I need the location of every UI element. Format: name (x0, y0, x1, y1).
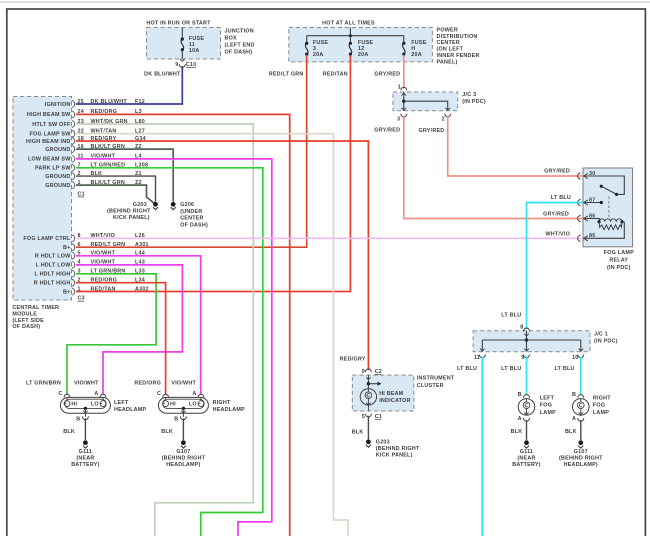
wire L80 WHT/DK GRN (CTM pin 23, off-page bottom) (76, 124, 254, 536)
svg-text:LT BLU: LT BLU (555, 366, 575, 372)
svg-text:RED/TAN: RED/TAN (323, 72, 348, 78)
wire F12 DK BLU/WHT (fuse 11 to CTM pin 25) (76, 66, 183, 104)
svg-text:OF DASH): OF DASH) (225, 49, 253, 55)
svg-text:(IN PDC): (IN PDC) (462, 99, 486, 105)
svg-text:MODULE: MODULE (12, 311, 37, 317)
fog lamp relay box (583, 168, 634, 271)
svg-text:CENTER: CENTER (437, 40, 460, 46)
svg-text:PARK LP SW: PARK LP SW (35, 166, 71, 172)
connector C10 pin 9 (175, 59, 196, 68)
svg-text:(NEAR: (NEAR (76, 456, 94, 462)
wire LT BLU (relay pin 87 to J/C 1 pin 8) (501, 195, 583, 329)
wire Z2 BLK/LT GRN (CTM pin 1 to ground G203) (76, 185, 154, 203)
J/C 1 pin 11 connector (474, 355, 485, 361)
svg-text:1: 1 (78, 286, 81, 292)
svg-text:HEADLAMP: HEADLAMP (213, 407, 245, 413)
relay pin 85 terminal (578, 222, 625, 242)
svg-text:C: C (157, 391, 161, 397)
svg-text:J/C 1: J/C 1 (594, 332, 608, 338)
svg-text:CLUSTER: CLUSTER (417, 383, 444, 389)
J/C 1 pin 10 connector (572, 355, 584, 361)
CTM pin 5 R HDLT LOW (C3) (35, 251, 145, 260)
wire BLK (left fog lamp to ground G111) (511, 420, 527, 440)
svg-text:KICK PANEL): KICK PANEL) (113, 215, 150, 221)
svg-text:B: B (76, 417, 80, 423)
svg-text:RED/LT GRN: RED/LT GRN (269, 72, 304, 78)
svg-text:LT BLU: LT BLU (501, 366, 521, 372)
svg-text:VIO/WHT: VIO/WHT (171, 381, 196, 387)
wire L3 RED/ORG (CTM pin 24, off-page bottom) (76, 114, 290, 536)
svg-text:BOX: BOX (225, 36, 238, 42)
svg-text:(BEHIND RIGHT: (BEHIND RIGHT (162, 456, 206, 462)
wire Z2 BLK/LT GRN (CTM pin 16 to ground G206) (76, 149, 173, 201)
svg-text:J/C 3: J/C 3 (462, 92, 476, 98)
svg-text:C2: C2 (375, 369, 382, 375)
wire BLK (right headlamp to ground G107) (161, 418, 183, 440)
J/C 3 internal bus (402, 92, 451, 111)
svg-text:HEADLAMP: HEADLAMP (114, 407, 146, 413)
hi beam indicator bulb (360, 375, 410, 411)
relay pin 30 terminal (0, 0, 624, 194)
svg-text:BLK: BLK (161, 429, 173, 435)
CTM pin 2 R HDLT HIGH (C3) (34, 278, 145, 287)
svg-text:GRY/RED: GRY/RED (544, 169, 570, 175)
svg-text:FOG: FOG (593, 403, 605, 409)
svg-text:HEADLAMP): HEADLAMP) (564, 462, 598, 468)
ground G203 (behind right kick panel, cluster) (366, 439, 420, 458)
svg-text:HOT AT ALL TIMES: HOT AT ALL TIMES (322, 20, 375, 26)
svg-text:INSTRUMENT: INSTRUMENT (417, 376, 455, 382)
svg-text:B: B (572, 392, 576, 398)
CTM pin 2 GROUND (45, 171, 142, 180)
svg-text:WHT/VIO: WHT/VIO (545, 231, 570, 237)
fuse 3 20A (305, 36, 328, 62)
svg-text:L HDLT LOW: L HDLT LOW (36, 263, 72, 269)
svg-text:DK BLU/WHT: DK BLU/WHT (144, 72, 181, 78)
svg-text:HI: HI (71, 402, 77, 408)
svg-text:(UNDER: (UNDER (180, 209, 202, 215)
svg-text:BLK: BLK (565, 429, 577, 435)
svg-text:C1: C1 (78, 191, 85, 197)
svg-text:G111: G111 (520, 449, 533, 455)
svg-text:RED/GRY: RED/GRY (340, 357, 366, 363)
svg-text:IGNITION: IGNITION (45, 102, 71, 108)
CTM pin 1 GROUND (45, 180, 142, 189)
wire L4 VIO/WHT (CTM pin 11, off-page bottom) (76, 159, 272, 536)
svg-text:B: B (174, 417, 178, 423)
svg-text:R HDLT LOW: R HDLT LOW (35, 254, 71, 260)
svg-text:11: 11 (474, 355, 480, 361)
svg-text:HIGH BEAM IND: HIGH BEAM IND (26, 139, 71, 145)
wire LT BLU (J/C 1 pin 11, off-page bottom) (457, 357, 482, 536)
wire L34 RED/ORG (CTM pin 2 to right headlamp C) (76, 283, 166, 395)
J/C 3 pin 3 connector (397, 114, 407, 123)
svg-text:5: 5 (362, 414, 365, 420)
svg-text:9: 9 (362, 369, 365, 375)
J/C 1 internal bus (480, 331, 583, 352)
central timer module box (12, 97, 71, 331)
svg-text:INDICATOR: INDICATOR (379, 398, 410, 404)
svg-text:HOT IN RUN OR START: HOT IN RUN OR START (146, 20, 211, 26)
svg-text:FOG: FOG (540, 403, 552, 409)
svg-text:9: 9 (521, 355, 524, 361)
svg-text:BLK: BLK (63, 429, 75, 435)
svg-text:LO: LO (91, 402, 99, 408)
svg-text:10A: 10A (189, 48, 200, 54)
wire L44 VIO/WHT (CTM pin 5 to right headlamp A) (76, 256, 201, 395)
svg-text:F12: F12 (135, 99, 145, 105)
right fog lamp (572, 392, 611, 422)
svg-text:G107: G107 (176, 449, 190, 455)
CTM pin 22 FOG LAMP SW (30, 129, 145, 138)
svg-text:G206: G206 (180, 202, 194, 208)
CTM pin 23 HTLT SW OFF (32, 119, 145, 128)
ground G111 (near battery, fog lamp) (512, 440, 540, 468)
wire A302 RED/TAN (fuse 12 to CTM pin 1 B+) (76, 55, 351, 291)
svg-text:LEFT: LEFT (540, 396, 555, 402)
CTM pin 24 HIGH BEAM SW (27, 109, 142, 118)
svg-text:G111: G111 (79, 449, 92, 455)
fuse H 20A (402, 36, 427, 62)
CTM pin 16 GROUND (45, 144, 142, 153)
svg-text:DISTRIBUTION: DISTRIBUTION (437, 34, 478, 40)
svg-text:HIGH BEAM SW: HIGH BEAM SW (27, 112, 71, 118)
svg-text:GROUND: GROUND (45, 183, 70, 189)
svg-text:CENTER: CENTER (180, 216, 203, 222)
svg-text:C1: C1 (375, 414, 382, 420)
svg-text:A302: A302 (135, 286, 149, 292)
svg-text:KICK PANEL): KICK PANEL) (376, 453, 413, 459)
svg-text:A301: A301 (135, 242, 149, 248)
svg-text:FOG LAMP CTRL: FOG LAMP CTRL (23, 236, 71, 242)
junction connector J/C 1 (in PDC) box (473, 331, 618, 352)
J/C 1 pin 9 connector (521, 355, 529, 361)
J/C 3 pin 1 connector (398, 84, 407, 90)
wire A301 RED/LT GRN (fuse 3 to CTM pin 6 B+) (76, 55, 307, 247)
svg-text:FOG LAMP: FOG LAMP (604, 250, 634, 256)
svg-text:(LEFT SIDE: (LEFT SIDE (12, 318, 44, 324)
svg-text:G203: G203 (133, 202, 147, 208)
CTM pin 11 LOW BEAM SW (28, 154, 142, 163)
svg-text:(NEAR: (NEAR (517, 456, 535, 462)
svg-text:(IN PDC): (IN PDC) (594, 339, 618, 345)
CTM pin 6 B+ (C3) (63, 242, 149, 251)
wire L26 WHT/VIO (CTM pin 8 to relay pin 85) (76, 231, 583, 238)
CTM connector C1 label (78, 191, 85, 197)
fuse 11 10A (181, 28, 205, 60)
wire L27 WHT/TAN (CTM pin 22, off-page bottom) (76, 134, 348, 536)
svg-text:C10: C10 (186, 62, 197, 68)
svg-text:DK BLU/WHT: DK BLU/WHT (91, 99, 128, 105)
svg-text:20A: 20A (358, 52, 369, 58)
right headlamp (157, 391, 245, 422)
relay pin 87 terminal (578, 197, 603, 205)
svg-text:C: C (58, 391, 62, 397)
svg-text:RED/ORG: RED/ORG (134, 381, 161, 387)
svg-text:2: 2 (442, 117, 445, 123)
svg-text:8: 8 (520, 325, 523, 331)
fuse 12 20A (349, 36, 374, 62)
svg-text:25: 25 (78, 99, 84, 105)
svg-text:BATTERY): BATTERY) (512, 462, 540, 468)
wire BLK (right fog lamp to ground G107) (565, 420, 581, 440)
svg-text:A: A (572, 416, 576, 422)
left fog lamp (518, 392, 556, 422)
svg-text:HI BEAM: HI BEAM (379, 391, 404, 397)
relay coil with parallel resistor (86-85) (598, 219, 624, 230)
ground G107 (behind right headlamp, fog lamp) (559, 440, 603, 468)
J/C 3 pin 2 connector (442, 114, 451, 123)
svg-text:20A: 20A (411, 52, 422, 58)
svg-text:(BEHIND RIGHT: (BEHIND RIGHT (559, 456, 603, 462)
power distribution center box (289, 20, 480, 65)
left headlamp (58, 391, 146, 422)
svg-text:GRY/RED: GRY/RED (374, 72, 400, 78)
wire GRY/RED (J/C 3 pin 2 to relay pin 30) (418, 116, 583, 177)
relay pin 86 terminal (578, 213, 600, 221)
wire L33 LT GRN/BRN (CTM pin 3 to left headlamp C) (26, 274, 156, 395)
wire LT BLU (J/C 1 pin 9 to left fog lamp) (501, 357, 526, 396)
svg-text:(ON LEFT: (ON LEFT (437, 47, 464, 53)
svg-text:G107: G107 (574, 449, 588, 455)
svg-text:PANEL): PANEL) (437, 59, 458, 65)
junction connector J/C 3 (in PDC) box (393, 92, 486, 111)
relay switch contact (30-87) (600, 185, 618, 217)
svg-text:RED/LT GRN: RED/LT GRN (91, 242, 126, 248)
svg-text:LT BLU: LT BLU (457, 366, 477, 372)
svg-text:LT BLU: LT BLU (501, 312, 521, 318)
connector C2 pin 9 (instrument cluster) (362, 369, 382, 375)
svg-text:BLK: BLK (352, 429, 364, 435)
svg-text:LEFT: LEFT (114, 400, 129, 406)
connector C1 pin 5 (instrument cluster) (362, 414, 382, 420)
svg-text:C3: C3 (78, 296, 85, 302)
svg-text:LT GRN/BRN: LT GRN/BRN (26, 381, 61, 387)
svg-text:LT BLU: LT BLU (551, 195, 571, 201)
svg-text:HI: HI (170, 402, 176, 408)
svg-text:B+: B+ (63, 245, 70, 251)
junction box (left end of dash) (146, 20, 254, 59)
svg-text:OF DASH): OF DASH) (12, 324, 40, 330)
wire GRY/RED (fuse H to J/C 3 pin 1) (374, 55, 403, 88)
CTM connector C3 label (78, 296, 85, 302)
svg-text:BLK: BLK (511, 429, 523, 435)
svg-text:RIGHT: RIGHT (213, 400, 231, 406)
svg-text:GRY/RED: GRY/RED (543, 212, 569, 218)
wire G34 RED/GRY (CTM pin 18 to hi beam indicator) (76, 141, 369, 370)
svg-text:20A: 20A (313, 52, 324, 58)
svg-text:RELAY: RELAY (609, 257, 628, 263)
svg-text:(IN PDC): (IN PDC) (607, 265, 631, 271)
svg-text:10: 10 (572, 355, 578, 361)
svg-text:RIGHT: RIGHT (593, 396, 611, 402)
CTM pin 3 L HDLT HIGH (C3) (34, 269, 145, 278)
wire Z1 BLK (CTM pin 2 to ground G203) (76, 176, 156, 202)
wire BLK (left headlamp to ground G111) (63, 418, 85, 440)
svg-text:HEADLAMP): HEADLAMP) (166, 462, 200, 468)
svg-text:(BEHIND RIGHT: (BEHIND RIGHT (376, 446, 420, 452)
svg-text:3: 3 (397, 117, 400, 123)
svg-text:OF DASH): OF DASH) (180, 222, 208, 228)
ground G111 (near battery) (71, 440, 99, 468)
CTM pin 25 IGNITION (45, 99, 145, 108)
svg-text:G203: G203 (376, 440, 390, 446)
svg-text:INNER FENDER: INNER FENDER (437, 53, 480, 59)
CTM pin 18 HIGH BEAM IND (26, 136, 146, 145)
svg-text:VIO/WHT: VIO/WHT (74, 381, 99, 387)
wire L43 VIO/WHT (CTM pin 4 to left headlamp A) (74, 265, 182, 395)
svg-text:6: 6 (78, 242, 81, 248)
CTM pin 4 L HDLT LOW (C3) (36, 260, 145, 269)
svg-text:A: A (518, 416, 522, 422)
svg-text:LOW BEAM SW: LOW BEAM SW (28, 157, 71, 163)
wire GRY/RED (J/C 3 pin 3 to relay pin 86) (374, 116, 583, 219)
instrument cluster box (352, 375, 455, 411)
CTM pin 8 FOG LAMP CTRL (C3) (23, 233, 145, 242)
svg-text:LO: LO (189, 402, 197, 408)
svg-text:GRY/RED: GRY/RED (418, 128, 444, 134)
svg-text:RED/TAN: RED/TAN (91, 286, 116, 292)
svg-text:POWER: POWER (437, 27, 458, 33)
svg-text:GROUND: GROUND (45, 147, 70, 153)
svg-text:JUNCTION: JUNCTION (225, 29, 254, 35)
CTM pin 1 B+ (C3) (63, 286, 149, 295)
ground G203 (behind right kick panel) (107, 202, 158, 221)
J/C 1 pin 8 connector (520, 325, 529, 332)
ground G107 (behind right headlamp) (162, 440, 206, 468)
svg-text:LAMP: LAMP (593, 410, 609, 416)
svg-text:GRY/RED: GRY/RED (374, 128, 400, 134)
svg-text:HTLT SW OFF: HTLT SW OFF (32, 122, 71, 128)
svg-text:B: B (518, 392, 522, 398)
CTM pin 7 PARK LP SW (35, 163, 148, 172)
svg-text:9: 9 (175, 62, 178, 68)
svg-text:GROUND: GROUND (45, 174, 70, 180)
ground G206 (under center of dash) (171, 202, 208, 228)
svg-text:(LEFT END: (LEFT END (225, 42, 255, 48)
svg-text:B+: B+ (63, 289, 70, 295)
PDC internal bus (307, 28, 404, 38)
svg-text:FOG LAMP SW: FOG LAMP SW (30, 132, 72, 138)
svg-text:A: A (94, 391, 98, 397)
svg-text:(BEHIND RIGHT: (BEHIND RIGHT (107, 209, 151, 215)
svg-text:A: A (192, 391, 196, 397)
svg-text:LAMP: LAMP (540, 410, 556, 416)
svg-text:R HDLT HIGH: R HDLT HIGH (34, 281, 71, 287)
wire L308 LT GRN/RED (CTM pin 7, off-page bottom) (76, 168, 263, 536)
wire BLK (instrument cluster to ground G203) (352, 416, 369, 440)
svg-text:CENTRAL TIMER: CENTRAL TIMER (12, 305, 59, 311)
svg-text:1: 1 (398, 84, 401, 90)
svg-text:L HDLT HIGH: L HDLT HIGH (34, 272, 70, 278)
svg-text:BATTERY): BATTERY) (71, 462, 99, 468)
wire LT BLU (J/C 1 pin 10 to right fog lamp) (555, 357, 581, 396)
